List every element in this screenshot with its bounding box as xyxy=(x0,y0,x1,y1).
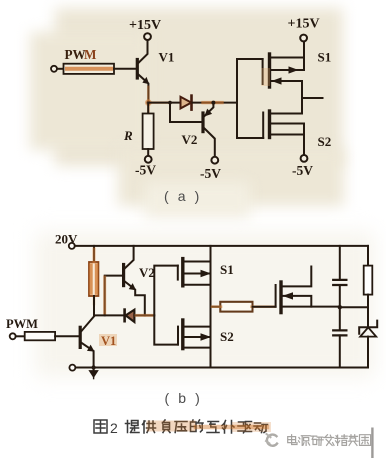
svg-text:M: M xyxy=(84,47,97,62)
wire resistor to power mosfet gate xyxy=(253,306,276,308)
top rail 20V xyxy=(75,245,368,247)
svg-text:2: 2 xyxy=(110,420,118,436)
svg-text:S1: S1 xyxy=(220,262,234,277)
transistor V1 (b) NPN xyxy=(80,316,94,367)
highlight orange on wire right of diode xyxy=(203,101,222,104)
mosfet S1 (a) xyxy=(263,41,304,113)
watermark char 电 xyxy=(288,435,297,445)
terminal -5V (a right) xyxy=(301,155,308,162)
watermark char 研 xyxy=(311,436,323,445)
caption char 补 xyxy=(222,421,234,434)
resistor R (vertical) xyxy=(143,114,154,150)
caption char 的 xyxy=(191,420,204,432)
caption char 互 xyxy=(207,422,219,433)
faint warm wash of circuit (b) xyxy=(35,232,375,377)
wire diode to gate rail xyxy=(193,102,238,104)
power mosfet Q xyxy=(276,267,340,313)
right edge down from rail xyxy=(367,246,369,266)
terminal PWM (b) xyxy=(10,333,16,339)
svg-text:+15V: +15V xyxy=(129,18,161,33)
svg-text:( a ): ( a ) xyxy=(164,188,202,204)
wire emitter node to R2 xyxy=(147,103,149,114)
resistor (right vertical) xyxy=(364,266,373,295)
watermark char 源 xyxy=(299,436,311,446)
resistor base (b) xyxy=(25,332,55,340)
svg-text:PW: PW xyxy=(65,47,86,62)
terminal 20V xyxy=(69,243,75,249)
wire R2 to terminal xyxy=(147,149,149,156)
svg-text:R: R xyxy=(123,128,133,143)
caption char 驱 xyxy=(238,422,252,433)
highlight orange caption wash xyxy=(152,421,190,432)
label PWM xyxy=(65,47,98,62)
wire resistor to V1 base (b) xyxy=(55,335,80,337)
svg-text:-5V: -5V xyxy=(200,166,221,181)
caption char 负 xyxy=(163,420,171,433)
junction ground node xyxy=(91,365,95,369)
wire V2 base branch xyxy=(170,103,202,122)
watermark logo xyxy=(267,435,277,446)
transistor V2 (b) NPN xyxy=(105,246,145,316)
diode VD (a) xyxy=(181,96,192,110)
highlight orange smudge S1 gate xyxy=(262,68,271,86)
resistor gate (orange) xyxy=(212,302,274,312)
watermark char 精 xyxy=(335,435,347,446)
bottom rail xyxy=(76,367,369,369)
svg-text:-5V: -5V xyxy=(292,163,313,178)
capacitor column upper xyxy=(333,246,346,307)
diode VD (b, pointing left) xyxy=(125,310,155,322)
caption 图2 提供负压的互补驱动 (pseudo glyphs) xyxy=(94,420,118,436)
resistor R (base, horizontal) xyxy=(64,64,115,74)
terminal -5V (below V2) xyxy=(211,157,218,164)
zener diode VZ xyxy=(359,307,377,367)
terminal PWM input xyxy=(51,66,57,72)
caption char 动 xyxy=(254,423,268,433)
wire below right resistor xyxy=(367,295,369,308)
svg-text:+15V: +15V xyxy=(288,17,320,32)
svg-text:S2: S2 xyxy=(318,134,332,149)
highlight orange on V2 base drop xyxy=(103,277,106,315)
mosfet S1 (b) xyxy=(178,259,211,286)
terminal +15V (left) xyxy=(144,33,151,40)
watermark text strokes xyxy=(288,435,371,446)
highlight orange at emitter node xyxy=(145,99,152,106)
watermark char 发 xyxy=(324,435,334,446)
scanned beige background of circuit (a) xyxy=(55,8,343,166)
caption char 提 xyxy=(126,421,140,433)
wire cap node to right edge xyxy=(340,306,368,308)
caption text strokes xyxy=(126,420,268,433)
transistor V2 (PNP) xyxy=(203,103,215,157)
wire R1 to V1 base xyxy=(114,68,136,70)
terminal -5V (below R) xyxy=(145,156,152,163)
watermark char 英 xyxy=(348,435,358,446)
output stub (a) xyxy=(302,97,323,99)
junction V2 emitter on wire xyxy=(211,101,215,105)
svg-text:PWM: PWM xyxy=(6,317,38,331)
caption char 压 xyxy=(175,422,187,433)
gate rail rectangle (b) xyxy=(154,266,178,345)
terminal bottom left xyxy=(69,365,75,371)
gate rail rectangle (a) xyxy=(237,59,263,138)
ground xyxy=(89,368,98,379)
mosfet S2 (a) xyxy=(263,111,304,154)
svg-text:-5V: -5V xyxy=(135,163,156,178)
svg-text:( b ): ( b ) xyxy=(165,390,203,406)
wire emitter node to diode xyxy=(148,102,180,104)
svg-text:V2: V2 xyxy=(139,265,155,280)
resistor Rb (orange, left) xyxy=(89,246,98,316)
highlight orange right of diode xyxy=(136,314,153,317)
transistor V1 (NPN) xyxy=(137,40,148,102)
output lead to gate resistor xyxy=(211,306,221,308)
capacitor column lower xyxy=(333,307,346,367)
wire PWM to R1 xyxy=(57,68,63,70)
junction cap node xyxy=(338,305,342,309)
junction branch node xyxy=(168,101,172,105)
gray edge bar xyxy=(371,428,373,458)
junction V1 emitter node xyxy=(146,101,150,105)
vertical drive rail (b) xyxy=(210,246,212,368)
svg-text:S1: S1 xyxy=(318,50,332,65)
terminal +15V (right) xyxy=(300,35,307,42)
svg-text:V2: V2 xyxy=(182,132,198,147)
wire PWM to resistor (b) xyxy=(16,335,25,337)
caption char 供 xyxy=(143,421,156,433)
label 20V xyxy=(55,232,78,247)
svg-text:S2: S2 xyxy=(220,329,234,344)
svg-text:V1: V1 xyxy=(159,50,175,65)
mosfet S2 (b) xyxy=(178,320,211,349)
node wire (b) with diode xyxy=(94,314,123,316)
watermark char 圈 xyxy=(360,435,371,446)
